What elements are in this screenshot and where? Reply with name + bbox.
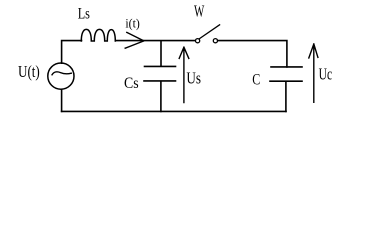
svg-text:C: C <box>252 72 260 89</box>
svg-text:U(t): U(t) <box>18 62 40 81</box>
svg-text:W: W <box>194 2 205 21</box>
svg-text:Cs: Cs <box>124 75 139 92</box>
svg-text:Uc: Uc <box>319 64 333 83</box>
svg-text:i(t): i(t) <box>125 15 139 30</box>
svg-text:Us: Us <box>186 69 201 88</box>
svg-text:Ls: Ls <box>78 6 90 23</box>
